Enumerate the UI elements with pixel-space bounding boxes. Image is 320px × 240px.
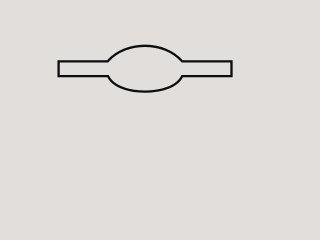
tube with bulb (union outline of rectangle and bulge) [59, 46, 232, 92]
diagram: glass tube with central bulb [0, 0, 283, 141]
